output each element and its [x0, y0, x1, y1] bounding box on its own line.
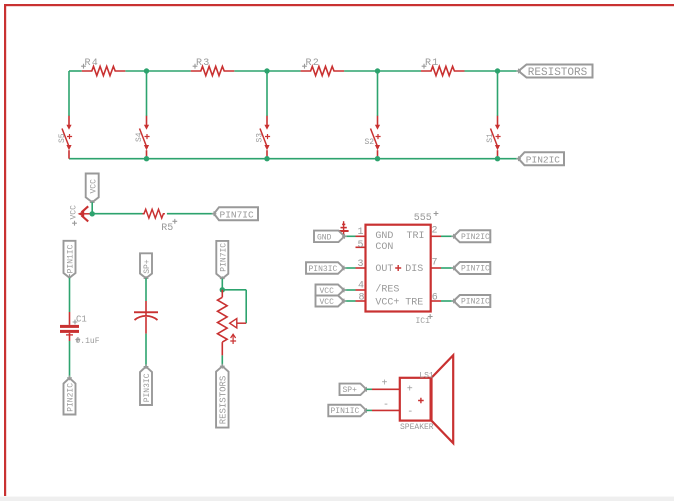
svg-text:7: 7	[432, 257, 438, 268]
svg-text:SPEAKER: SPEAKER	[400, 423, 434, 432]
svg-text:R5: R5	[161, 223, 173, 234]
svg-text:VCC: VCC	[89, 179, 98, 194]
svg-text:/RES: /RES	[375, 283, 399, 295]
svg-text:PIN2IC: PIN2IC	[526, 154, 561, 165]
svg-text:SP+: SP+	[143, 259, 152, 274]
svg-text:PIN7IC: PIN7IC	[219, 243, 228, 272]
svg-text:PIN2IC: PIN2IC	[67, 383, 76, 412]
svg-text:-: -	[383, 400, 389, 411]
svg-text:1: 1	[358, 227, 364, 238]
svg-text:TRI: TRI	[407, 231, 425, 242]
svg-text:VCC: VCC	[320, 287, 335, 296]
svg-text:3: 3	[358, 259, 364, 270]
svg-text:R2: R2	[306, 58, 320, 69]
svg-text:S4: S4	[135, 132, 144, 142]
svg-text:PIN7IC: PIN7IC	[220, 210, 255, 221]
svg-text:5: 5	[358, 240, 364, 251]
svg-text:-: -	[407, 407, 413, 418]
svg-text:R1: R1	[425, 58, 439, 69]
svg-text:6: 6	[432, 293, 438, 304]
svg-text:S5: S5	[58, 133, 67, 143]
svg-text:C1: C1	[76, 315, 87, 325]
svg-text:RESISTORS: RESISTORS	[528, 67, 588, 79]
svg-text:R3: R3	[196, 58, 210, 69]
svg-text:VCC: VCC	[320, 298, 335, 307]
svg-text:PIN7IC: PIN7IC	[461, 265, 490, 274]
svg-text:S3: S3	[256, 133, 265, 143]
svg-text:PIN3IC: PIN3IC	[143, 373, 152, 402]
svg-text:0.1uF: 0.1uF	[76, 337, 100, 346]
svg-text:CON: CON	[375, 242, 393, 253]
svg-text:PIN2IC: PIN2IC	[461, 233, 490, 242]
svg-text:LS1: LS1	[419, 371, 434, 380]
svg-text:+: +	[407, 384, 413, 395]
svg-text:R4: R4	[85, 58, 99, 69]
svg-text:2: 2	[432, 225, 438, 236]
svg-text:PIN2IC: PIN2IC	[461, 298, 490, 307]
svg-text:S1: S1	[486, 133, 495, 143]
svg-text:DIS: DIS	[405, 264, 423, 275]
svg-text:+: +	[382, 379, 388, 390]
svg-text:PIN1IC: PIN1IC	[67, 244, 76, 273]
svg-text:555: 555	[414, 213, 432, 224]
svg-text:GND: GND	[375, 231, 393, 242]
svg-text:GND: GND	[317, 233, 332, 242]
svg-text:RESISTORS: RESISTORS	[219, 376, 229, 425]
svg-text:TRE: TRE	[405, 297, 423, 308]
svg-text:VCC: VCC	[70, 205, 79, 220]
svg-text:SP+: SP+	[343, 386, 358, 395]
svg-text:PIN1IC: PIN1IC	[331, 407, 360, 416]
svg-text:PIN3IC: PIN3IC	[309, 265, 338, 274]
svg-text:OUT: OUT	[375, 264, 393, 275]
svg-text:8: 8	[359, 293, 365, 304]
svg-text:S2: S2	[365, 138, 375, 147]
svg-text:VCC+: VCC+	[375, 297, 399, 308]
svg-text:IC1: IC1	[416, 317, 431, 326]
svg-text:4: 4	[358, 281, 364, 292]
